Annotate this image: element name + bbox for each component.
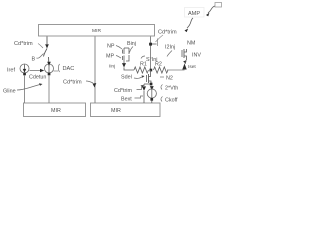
label NP with squiggle: [107, 44, 122, 50]
label S*Inj: [141, 56, 157, 63]
svg-text:R2: R2: [155, 62, 162, 68]
svg-text:2*Vth: 2*Vth: [165, 86, 178, 92]
transistor MP (injection pair lower): [123, 55, 130, 61]
label Sdel with squiggle: [121, 75, 145, 81]
current source Iref (circle): [20, 64, 29, 73]
svg-text:Sdel: Sdel: [121, 75, 132, 81]
svg-text:Cd*trim: Cd*trim: [158, 30, 177, 36]
svg-text:Cd*trim: Cd*trim: [114, 88, 132, 94]
transistor M0 (mirror input, circle): [45, 62, 59, 73]
svg-text:R1: R1: [140, 62, 147, 68]
node at x=150 y=44: [149, 43, 152, 46]
svg-text:Gline: Gline: [3, 89, 16, 95]
node under current source: [150, 98, 153, 101]
svg-text:N2: N2: [166, 76, 173, 82]
wire R2 to Iset branch: [167, 69, 185, 71]
block MIR (top): [39, 25, 155, 37]
svg-text:Binj: Binj: [127, 41, 136, 47]
svg-text:NM: NM: [187, 41, 196, 47]
svg-text:MIR: MIR: [111, 108, 121, 114]
transistor N2: [147, 70, 152, 84]
label Cd*trim (left of top MIR): [14, 41, 43, 48]
wire arrow between mirror devices: [30, 69, 45, 73]
current source 2*Ith (circle): [147, 89, 156, 98]
label Gline with leader: [3, 83, 43, 94]
label Cd*trim (middle) with leader arrow: [63, 80, 96, 88]
wire switch-control from AMP down to transistor NM: [185, 18, 194, 32]
svg-text:Cdetun: Cdetun: [29, 75, 46, 81]
leader squiggle from Cd*trim to node: [156, 35, 164, 42]
wire switch-control from CLK box to AMP: [206, 6, 215, 16]
wire current source to MIR box: [151, 101, 153, 104]
node R1-R2 junction: [150, 69, 153, 72]
label Ckoff with paren leader: [161, 97, 178, 104]
node under Iref: [23, 73, 26, 76]
label N2 with dash leader: [160, 76, 173, 82]
svg-text:NP: NP: [107, 44, 115, 50]
switch lever to transistor below: [44, 49, 49, 64]
arrowhead Iset up: [182, 64, 186, 70]
svg-text:B: B: [32, 57, 36, 63]
svg-text:MP: MP: [106, 54, 114, 60]
svg-text:Cd*trim: Cd*trim: [14, 41, 33, 47]
wire down x=143 with arrowhead into MIR: [142, 84, 146, 103]
transistor NM: [182, 49, 187, 64]
block MIR (bottom-right): [91, 103, 161, 117]
resistor R2: [154, 62, 168, 74]
wire Iref to MIR box: [24, 75, 26, 103]
svg-text:INV: INV: [192, 53, 201, 59]
wire injection pair to R1 node with arrowhead: [122, 61, 134, 70]
node N2 source: [150, 83, 153, 86]
svg-text:Iinj: Iinj: [109, 64, 115, 70]
wire from top MIR down long at x=95: [94, 37, 96, 104]
label Binj with squiggle: [127, 41, 136, 53]
label 2*Vth with paren leader: [161, 85, 178, 92]
label Bext with bent leader: [121, 96, 143, 103]
wire stub at node with lever: [152, 39, 158, 47]
svg-text:Ckoff: Ckoff: [165, 98, 178, 104]
wire from top MIR down at x=150: [150, 37, 152, 71]
svg-text:Cd*trim: Cd*trim: [63, 80, 82, 86]
resistor R1: [134, 62, 148, 74]
svg-text:Iref: Iref: [7, 68, 16, 74]
node under M0: [48, 73, 51, 76]
block AMP: [185, 8, 205, 18]
svg-text:MIR: MIR: [51, 108, 61, 114]
label B with control squiggle: [32, 54, 44, 63]
wire M0 to MIR box: [48, 75, 50, 103]
svg-text:I2Inj: I2Inj: [165, 45, 175, 51]
svg-text:DAC: DAC: [63, 66, 75, 72]
transistor NP (injection pair upper): [123, 48, 130, 54]
wire from top MIR down at x=47 with arrowhead: [45, 37, 49, 49]
block MIR (bottom-left): [24, 103, 86, 117]
svg-text:Bext: Bext: [121, 97, 132, 103]
wire left from N2 source node: [144, 83, 150, 85]
svg-text:Iset: Iset: [188, 64, 196, 70]
block CLK (small box top-right): [215, 3, 222, 8]
arrowhead into current source 2*Ith: [150, 86, 154, 90]
svg-text:AMP: AMP: [188, 11, 200, 17]
label I2Inj with squiggle: [165, 45, 175, 57]
label MP with squiggle: [106, 54, 121, 60]
block DAC: [58, 64, 74, 72]
label Cd*trim (bottom) with bent leader: [114, 85, 144, 94]
svg-text:MIR: MIR: [92, 28, 101, 34]
